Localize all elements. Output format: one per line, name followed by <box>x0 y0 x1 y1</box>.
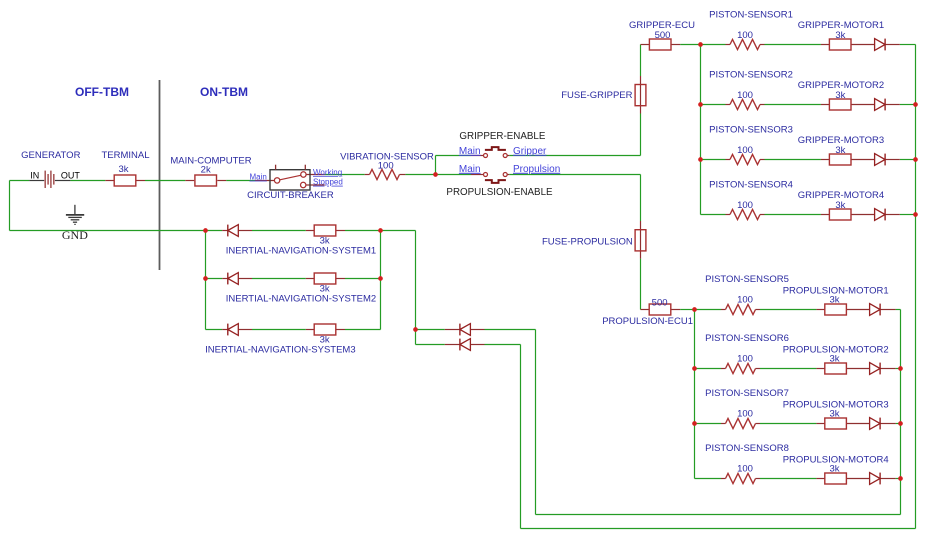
svg-text:100: 100 <box>737 295 753 306</box>
svg-text:TERMINAL: TERMINAL <box>101 150 149 161</box>
svg-text:100: 100 <box>737 464 753 475</box>
svg-text:Propulsion: Propulsion <box>513 164 560 175</box>
svg-text:3k: 3k <box>835 145 845 156</box>
svg-text:PISTON-SENSOR1: PISTON-SENSOR1 <box>709 10 793 21</box>
svg-text:100: 100 <box>737 90 753 101</box>
svg-text:3k: 3k <box>835 30 845 41</box>
svg-text:3k: 3k <box>829 464 839 475</box>
svg-text:GENERATOR: GENERATOR <box>21 150 80 161</box>
svg-text:PISTON-SENSOR6: PISTON-SENSOR6 <box>705 333 789 344</box>
svg-text:INERTIAL-NAVIGATION-SYSTEM3: INERTIAL-NAVIGATION-SYSTEM3 <box>205 344 355 355</box>
svg-text:500: 500 <box>652 298 668 309</box>
svg-text:100: 100 <box>737 409 753 420</box>
svg-text:100: 100 <box>737 200 753 211</box>
svg-text:PISTON-SENSOR8: PISTON-SENSOR8 <box>705 443 789 454</box>
svg-text:FUSE-PROPULSION: FUSE-PROPULSION <box>542 237 633 248</box>
svg-text:PISTON-SENSOR5: PISTON-SENSOR5 <box>705 274 789 285</box>
svg-text:Main: Main <box>249 173 266 182</box>
svg-text:100: 100 <box>737 354 753 365</box>
svg-text:Stopped: Stopped <box>313 178 343 187</box>
svg-text:GND: GND <box>62 228 88 242</box>
svg-text:3k: 3k <box>118 164 128 175</box>
svg-text:100: 100 <box>737 30 753 41</box>
svg-text:100: 100 <box>378 161 394 172</box>
svg-text:PISTON-SENSOR7: PISTON-SENSOR7 <box>705 388 789 399</box>
svg-text:3k: 3k <box>829 354 839 365</box>
svg-text:3k: 3k <box>320 235 330 246</box>
svg-text:INERTIAL-NAVIGATION-SYSTEM1: INERTIAL-NAVIGATION-SYSTEM1 <box>226 245 376 256</box>
svg-text:500: 500 <box>655 30 671 41</box>
svg-text:Main: Main <box>459 146 481 157</box>
svg-text:IN: IN <box>30 170 39 180</box>
svg-text:PISTON-SENSOR3: PISTON-SENSOR3 <box>709 125 793 136</box>
svg-text:ON-TBM: ON-TBM <box>200 85 248 99</box>
svg-text:Main: Main <box>459 164 481 175</box>
svg-text:GRIPPER-ENABLE: GRIPPER-ENABLE <box>459 131 545 142</box>
svg-text:3k: 3k <box>835 200 845 211</box>
svg-text:3k: 3k <box>835 90 845 101</box>
svg-text:MAIN-COMPUTER: MAIN-COMPUTER <box>170 156 251 167</box>
svg-text:INERTIAL-NAVIGATION-SYSTEM2: INERTIAL-NAVIGATION-SYSTEM2 <box>226 293 376 304</box>
svg-text:PISTON-SENSOR4: PISTON-SENSOR4 <box>709 180 793 191</box>
svg-text:PISTON-SENSOR2: PISTON-SENSOR2 <box>709 70 793 81</box>
svg-text:3k: 3k <box>320 334 330 345</box>
svg-text:Gripper: Gripper <box>513 146 547 157</box>
svg-text:PROPULSION-ENABLE: PROPULSION-ENABLE <box>446 187 553 198</box>
svg-text:CIRCUIT-BREAKER: CIRCUIT-BREAKER <box>247 190 334 201</box>
svg-text:3k: 3k <box>829 409 839 420</box>
svg-text:PROPULSION-ECU1: PROPULSION-ECU1 <box>602 316 693 327</box>
svg-text:3k: 3k <box>829 295 839 306</box>
svg-text:Working: Working <box>313 168 342 177</box>
svg-text:OFF-TBM: OFF-TBM <box>75 85 129 99</box>
svg-text:OUT: OUT <box>61 170 81 180</box>
svg-text:FUSE-GRIPPER: FUSE-GRIPPER <box>561 90 632 101</box>
svg-text:2k: 2k <box>201 165 211 176</box>
svg-text:3k: 3k <box>320 283 330 294</box>
svg-text:100: 100 <box>737 145 753 156</box>
